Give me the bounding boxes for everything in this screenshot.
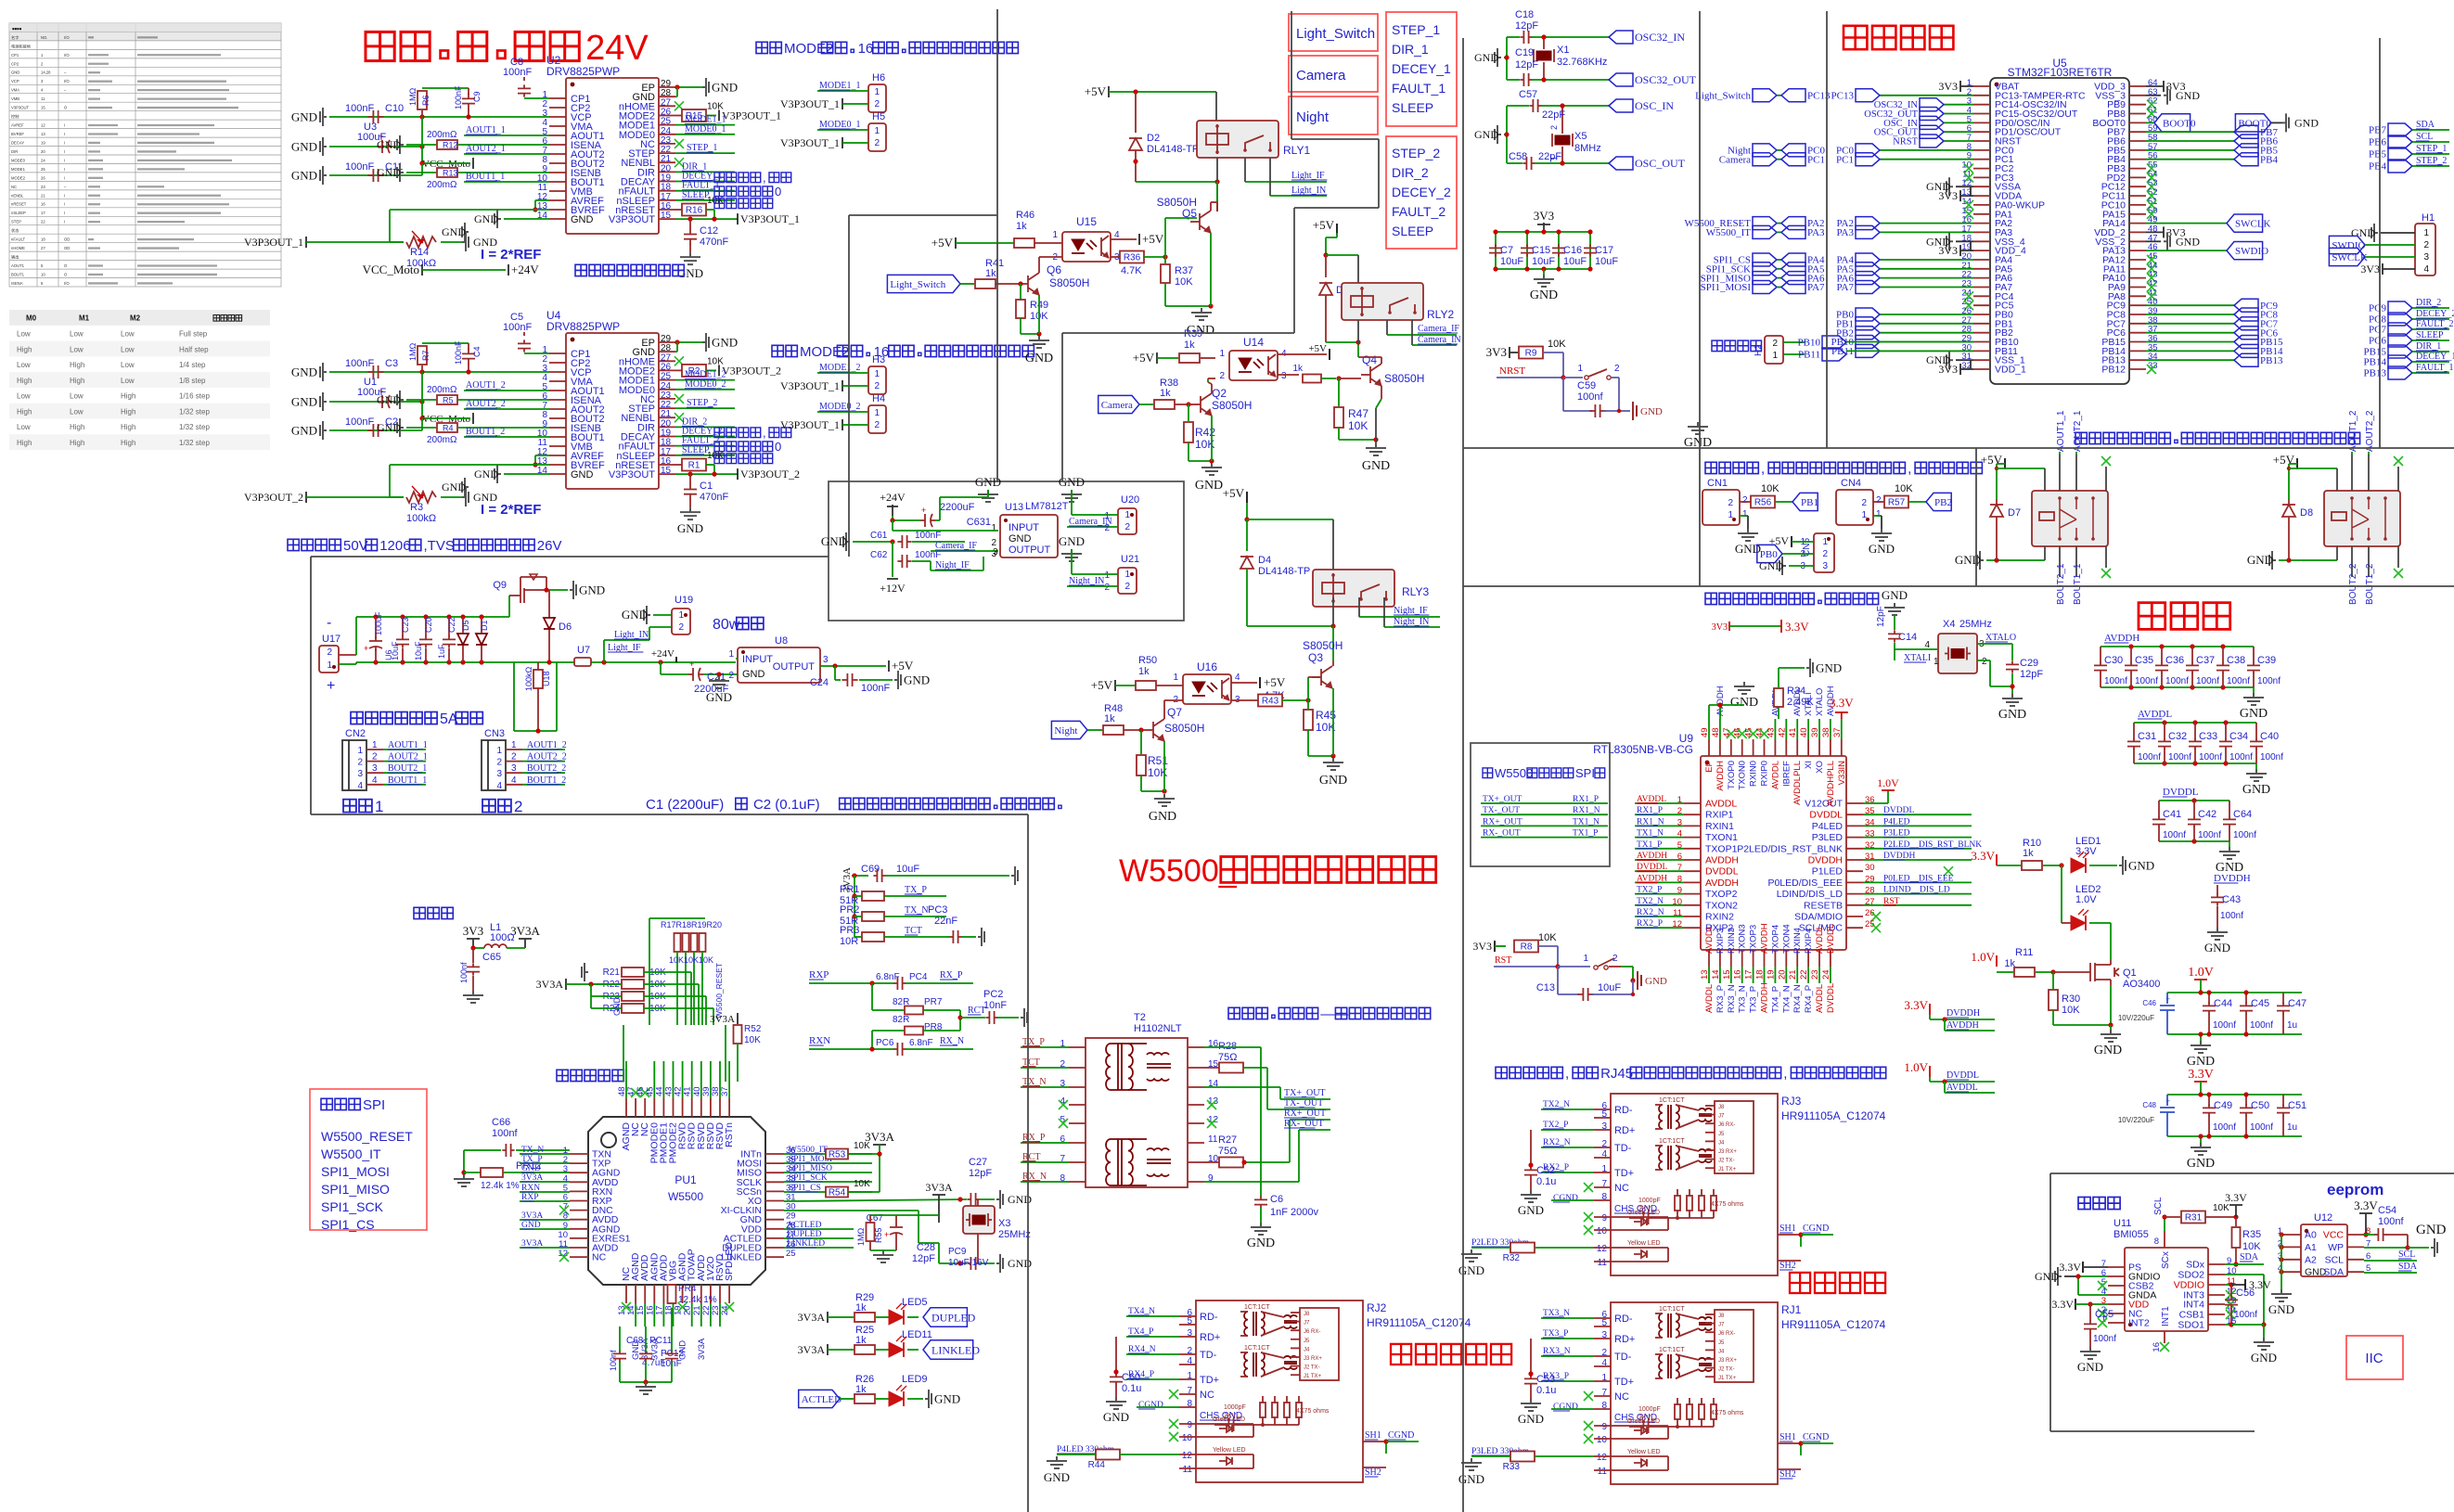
svg-text:GND: GND <box>2094 1044 2122 1057</box>
svg-text:Camera_IF: Camera_IF <box>1418 324 1459 334</box>
svg-text:3V3A: 3V3A <box>710 1014 735 1025</box>
svg-text:100nF: 100nF <box>915 531 941 541</box>
svg-text:R35: R35 <box>2242 1229 2261 1240</box>
svg-text:GND: GND <box>1759 559 1783 572</box>
capacitor C62 100nF <box>892 542 893 561</box>
svg-text:控制: 控制 <box>11 113 19 120</box>
svg-text:R11: R11 <box>2015 947 2033 958</box>
svg-text:0.1u: 0.1u <box>1536 1176 1556 1187</box>
connector RJ1 HR911105A <box>1611 1302 1778 1484</box>
svg-text:OD: OD <box>64 237 70 242</box>
svg-text:9: 9 <box>1601 1422 1607 1432</box>
svg-text:+5V: +5V <box>1313 218 1335 232</box>
svg-text:2200uF: 2200uF <box>940 502 975 513</box>
svg-text:R56: R56 <box>1754 498 1772 508</box>
svg-text:GND: GND <box>377 138 401 151</box>
U5 OSC port flags <box>1944 104 1973 106</box>
svg-text:C51: C51 <box>2288 1100 2306 1111</box>
power +5V <box>1156 352 1158 364</box>
svg-text:AVDDL: AVDDL <box>1704 984 1715 1013</box>
resistor PR4 <box>668 1285 676 1303</box>
capacitor C9/C4 100nF <box>468 343 469 350</box>
connector RJ2 HR911105A <box>1196 1301 1363 1482</box>
ground <box>1191 308 1212 320</box>
svg-text:BOUT1_2: BOUT1_2 <box>527 775 566 786</box>
svg-text:GND: GND <box>1869 542 1895 556</box>
svg-text:W5500_RESET: W5500_RESET <box>714 963 724 1019</box>
svg-text:XTALO: XTALO <box>1985 633 2016 643</box>
svg-text:12: 12 <box>1208 1115 1219 1125</box>
svg-text:DVDDH: DVDDH <box>2214 873 2251 884</box>
svg-text:1: 1 <box>375 798 383 815</box>
svg-text:2: 2 <box>874 381 880 391</box>
annotation transformer note <box>1228 1007 1240 1019</box>
svg-text:S8050H: S8050H <box>1049 276 1089 289</box>
svg-text:Half step: Half step <box>179 345 209 353</box>
svg-text:C35: C35 <box>2135 655 2153 666</box>
svg-text:Camera: Camera <box>1101 400 1133 411</box>
svg-text:GND: GND <box>291 110 317 124</box>
svg-text:OSC32_IN: OSC32_IN <box>1635 31 1685 44</box>
svg-text:STEP_1: STEP_1 <box>1392 22 1440 37</box>
wire Q2 collector to U14 pin2 <box>1211 384 1213 393</box>
U9 right pins <box>1846 802 1863 804</box>
svg-text:100nf: 100nf <box>2198 830 2221 840</box>
svg-text:PC9: PC9 <box>2369 303 2386 314</box>
svg-text:AOUT2_1: AOUT2_1 <box>2073 410 2083 452</box>
svg-text:100nf: 100nf <box>2104 676 2127 686</box>
svg-text:GND: GND <box>2242 783 2270 797</box>
brake relay RLY2 <box>2324 491 2400 546</box>
annotation decay mode note 1 <box>714 173 725 183</box>
svg-text:RD+: RD+ <box>1614 1334 1635 1345</box>
svg-text:X4: X4 <box>1943 619 1955 630</box>
svg-text:■■■■: ■■■■ <box>12 26 22 31</box>
svg-text:1/4 step: 1/4 step <box>179 361 206 369</box>
svg-text:100nF: 100nF <box>503 322 532 333</box>
svg-text:2: 2 <box>728 671 734 681</box>
svg-text:GND: GND <box>291 424 317 438</box>
svg-text:100nf: 100nf <box>459 962 469 983</box>
svg-text:+5V: +5V <box>931 236 954 250</box>
svg-text:GND: GND <box>2128 859 2154 873</box>
svg-text:PB4: PB4 <box>2260 154 2278 165</box>
svg-text:100nf: 100nf <box>2227 676 2250 686</box>
svg-text:1CT:1CT: 1CT:1CT <box>1659 1138 1685 1145</box>
svg-text:I: I <box>64 175 65 180</box>
resistor R9 boxed <box>1510 352 1518 353</box>
svg-text:C37: C37 <box>2196 655 2215 666</box>
svg-text:SDA: SDA <box>2240 1252 2259 1262</box>
svg-text:STEP_2: STEP_2 <box>687 398 717 408</box>
svg-text:14,28: 14,28 <box>41 70 51 75</box>
svg-text:INT2: INT2 <box>2128 1318 2150 1329</box>
svg-text:AVDDH: AVDDH <box>1705 878 1739 889</box>
svg-text:AVDDLPLL: AVDDLPLL <box>1792 761 1803 805</box>
annotation connector 5A <box>351 712 363 724</box>
svg-text:GND: GND <box>2176 89 2200 102</box>
svg-text:nHOME: nHOME <box>11 246 25 250</box>
svg-text:PC1: PC1 <box>1836 154 1854 165</box>
net Night_IN <box>1067 585 1118 587</box>
svg-text:C42: C42 <box>2198 809 2216 820</box>
svg-text:3: 3 <box>1601 1330 1607 1340</box>
svg-text:100nf: 100nf <box>2257 676 2281 686</box>
resistors PR1 PR2 PR3 <box>854 876 855 937</box>
svg-text:15: 15 <box>41 106 45 110</box>
header H4 <box>868 405 886 433</box>
svg-text:TX_P: TX_P <box>905 885 927 895</box>
svg-text:,: , <box>763 426 766 440</box>
svg-text:AVDDL: AVDDL <box>1704 925 1715 954</box>
svg-text:T2: T2 <box>1134 1012 1146 1023</box>
svg-text:+5V: +5V <box>892 659 914 673</box>
svg-text:1.0V: 1.0V <box>1904 1060 1928 1074</box>
svg-text:R43: R43 <box>1262 697 1279 707</box>
relay RLY1 <box>1197 121 1278 158</box>
wire Q2 emitter <box>1211 416 1213 461</box>
svg-text:C48: C48 <box>2142 1101 2156 1109</box>
signal box Light_Switch <box>1289 14 1378 51</box>
svg-text:C58: C58 <box>1509 151 1527 162</box>
svg-text:TXON3: TXON3 <box>1738 924 1748 954</box>
svg-text:NO.: NO. <box>41 35 47 40</box>
svg-text:82R: 82R <box>893 1015 909 1025</box>
svg-text:3V3: 3V3 <box>1472 940 1492 953</box>
svg-text:V3P3OUT: V3P3OUT <box>11 106 30 110</box>
svg-text:10K: 10K <box>707 451 724 461</box>
svg-text:NC: NC <box>11 185 17 189</box>
U4 EP/GND to GND wire <box>675 341 702 343</box>
svg-text:10K: 10K <box>2242 1241 2261 1252</box>
svg-text:D1: D1 <box>480 620 489 631</box>
svg-text:Camera_IF: Camera_IF <box>935 541 977 551</box>
svg-text:I = 2*REF: I = 2*REF <box>481 247 541 263</box>
svg-text:16: 16 <box>41 202 45 207</box>
svg-text:DIR_2: DIR_2 <box>2416 298 2441 308</box>
svg-text:AVDDL: AVDDL <box>1946 1083 1978 1093</box>
svg-text:R44: R44 <box>1088 1460 1106 1470</box>
svg-text:GND: GND <box>1730 696 1758 710</box>
svg-text:BOUT1: BOUT1 <box>11 273 25 277</box>
svg-text:输出: 输出 <box>11 254 19 261</box>
svg-text:10nF: 10nF <box>983 1000 1007 1011</box>
svg-text:SPI1_SCK: SPI1_SCK <box>321 1199 384 1214</box>
svg-text:Low: Low <box>17 361 31 369</box>
connector U20 <box>1118 508 1137 534</box>
U11 right pins <box>2208 1263 2225 1265</box>
svg-text:3: 3 <box>823 655 829 665</box>
svg-text:Yellow LED: Yellow LED <box>1627 1449 1661 1455</box>
svg-text:RXIP1: RXIP1 <box>1705 810 1734 821</box>
svg-text:RX4_P: RX4_P <box>1804 985 1814 1013</box>
resistor R55 1M <box>867 1223 875 1241</box>
svg-text:C61: C61 <box>870 531 888 541</box>
diode D4 DL4148-TP <box>1246 519 1248 551</box>
resistor R6/R7 1M <box>422 342 469 344</box>
svg-text:OSC_IN: OSC_IN <box>1635 99 1674 112</box>
resistor R37 10K <box>1164 257 1166 263</box>
svg-text:AO3400: AO3400 <box>2123 979 2160 990</box>
net Camera_IF <box>931 550 998 552</box>
svg-text:4: 4 <box>372 775 378 786</box>
svg-text:Low: Low <box>121 361 135 369</box>
wire U8 out to +5V <box>820 665 886 667</box>
resistor R47 10K <box>1338 378 1340 406</box>
svg-text:V3P3OUT_2: V3P3OUT_2 <box>740 468 800 481</box>
resistor R6/R7 1M <box>422 87 469 89</box>
svg-text:100nf: 100nf <box>2213 1020 2236 1031</box>
svg-text:R4: R4 <box>443 424 454 433</box>
svg-text:SCL: SCL <box>2153 1197 2164 1215</box>
svg-text:6.8nF: 6.8nF <box>909 1038 933 1048</box>
svg-text:100nf: 100nf <box>609 1350 618 1371</box>
ground flag low <box>462 478 469 496</box>
svg-text:2: 2 <box>1728 498 1733 508</box>
diode D3 DL4148-TP <box>1325 255 1327 277</box>
svg-text:V3P3OUT_1: V3P3OUT_1 <box>740 212 800 225</box>
svg-text:D4: D4 <box>1258 555 1271 566</box>
capacitor C29 12pF <box>2011 644 2013 660</box>
resistor R12/R5 200m <box>397 135 404 154</box>
svg-text:S8050H: S8050H <box>1384 372 1424 385</box>
net Camera_IF wire <box>1386 320 1388 335</box>
svg-text:U16: U16 <box>1197 660 1217 673</box>
svg-text:GND: GND <box>934 1392 960 1406</box>
right side wires W5500 <box>784 1153 872 1155</box>
capacitor C11/C2 100nF <box>320 166 327 185</box>
svg-text:100nf: 100nf <box>2233 830 2256 840</box>
diode D8 <box>2289 463 2297 465</box>
svg-text:RTL8305NB-VB-CG: RTL8305NB-VB-CG <box>1593 743 1693 756</box>
svg-text:C1: C1 <box>700 481 713 492</box>
ground <box>1061 549 1082 561</box>
svg-text:AOUT2_2: AOUT2_2 <box>2365 410 2375 452</box>
RJ1 termination resistors <box>1675 1404 1680 1419</box>
svg-text:GND: GND <box>712 336 738 350</box>
U4 V3P3OUT wire <box>675 473 738 475</box>
svg-text:24: 24 <box>41 158 45 162</box>
svg-text:SDO1: SDO1 <box>2178 1320 2204 1331</box>
svg-text:GND: GND <box>904 673 930 687</box>
svg-text:DVDDL: DVDDL <box>2163 787 2199 798</box>
svg-text:GND: GND <box>2240 707 2268 721</box>
svg-text:GND: GND <box>1816 661 1842 675</box>
electrolytic C21 2200uF <box>660 662 662 674</box>
svg-text:U8: U8 <box>775 635 788 647</box>
U9 left pins <box>1684 802 1701 804</box>
svg-text:DECEY_1: DECEY_1 <box>1392 61 1451 76</box>
svg-text:12: 12 <box>1597 1453 1608 1463</box>
net Camera_IN wire <box>1411 320 1413 345</box>
svg-text:SPDLED: SPDLED <box>724 1242 735 1281</box>
resistor R1 <box>675 464 685 466</box>
resistor R11 1k <box>1997 971 2013 973</box>
svg-text:1: 1 <box>1219 349 1225 359</box>
svg-text:DVDDL: DVDDL <box>1809 810 1843 821</box>
svg-text:NC: NC <box>592 1252 607 1263</box>
svg-text:PC1: PC1 <box>1807 154 1825 165</box>
svg-text:10uF: 10uF <box>414 641 423 660</box>
svg-text:1: 1 <box>327 660 332 671</box>
annotation for other projects <box>575 264 586 275</box>
svg-text:DVDDH: DVDDH <box>1946 1008 1980 1019</box>
svg-text:I/O: I/O <box>64 35 70 40</box>
svg-text:2.49K: 2.49K <box>1787 697 1814 708</box>
svg-text:12pF: 12pF <box>1515 59 1538 70</box>
potentiometer R14/R3 100k <box>305 492 307 503</box>
T2 left pins <box>1069 1046 1086 1048</box>
svg-text:VCP: VCP <box>11 79 19 83</box>
svg-text:AVDDH: AVDDH <box>1760 923 1770 954</box>
svg-text:I/O: I/O <box>64 79 70 83</box>
RJ3 termination resistors <box>1675 1196 1680 1211</box>
svg-text:V3P3OUT_1: V3P3OUT_1 <box>780 136 840 149</box>
svg-text:GND: GND <box>291 169 317 183</box>
svg-text:GND: GND <box>291 395 317 409</box>
svg-text:10K: 10K <box>854 1179 870 1189</box>
left net stubs W5500 <box>520 1153 570 1155</box>
svg-text:NC: NC <box>1614 1183 1629 1194</box>
svg-text:TX4_P: TX4_P <box>1770 986 1780 1013</box>
svg-text:100nf: 100nf <box>2378 1216 2404 1227</box>
title switch <box>2139 603 2165 630</box>
svg-text:RJ1: RJ1 <box>1781 1303 1802 1316</box>
svg-text:C65: C65 <box>482 952 501 963</box>
net Light_IN wire <box>649 626 672 628</box>
svg-text:D7: D7 <box>2008 507 2021 519</box>
svg-text:C31: C31 <box>2138 731 2156 742</box>
svg-text:,: , <box>1761 461 1765 477</box>
wires to OUT labels <box>1266 1068 1268 1109</box>
svg-text:C13: C13 <box>1536 982 1555 993</box>
ground CN1 <box>1740 515 1748 517</box>
svg-text:J3 RX+: J3 RX+ <box>1718 1149 1737 1155</box>
svg-text:R6: R6 <box>421 95 430 106</box>
svg-text:2: 2 <box>1614 364 1620 374</box>
svg-text:12pF: 12pF <box>912 1253 935 1264</box>
svg-text:470nF: 470nF <box>700 237 728 248</box>
capacitor C22 1uF <box>448 617 450 636</box>
title connect night vision <box>1391 1344 1411 1365</box>
svg-text:1CT:1CT: 1CT:1CT <box>1659 1097 1685 1104</box>
svg-text:R31: R31 <box>2185 1213 2203 1224</box>
svg-text:MODE2: MODE2 <box>784 41 833 57</box>
pmos Q9 <box>508 596 510 617</box>
svg-text:100nf: 100nf <box>2260 752 2283 762</box>
svg-text:AVDDH: AVDDH <box>1715 761 1726 791</box>
U2 right pins 15-29 <box>659 86 675 88</box>
svg-text:J6 RX-: J6 RX- <box>1718 1122 1735 1128</box>
svg-text:I: I <box>64 149 65 154</box>
svg-text:J1 TX+: J1 TX+ <box>1718 1376 1737 1381</box>
svg-text:5: 5 <box>1601 1109 1607 1120</box>
svg-text:High: High <box>70 361 84 369</box>
ground <box>1543 269 1545 275</box>
svg-text:R12: R12 <box>443 141 458 150</box>
svg-text:J8: J8 <box>1718 1105 1725 1110</box>
svg-text:TD-: TD- <box>1614 1143 1632 1154</box>
svg-text:1: 1 <box>1601 1373 1607 1383</box>
svg-text:High: High <box>70 377 84 385</box>
svg-text:GND: GND <box>474 212 498 225</box>
svg-text:4: 4 <box>1187 1356 1192 1366</box>
wire WP to GND <box>2364 1247 2408 1249</box>
annotation camera RJ45 note <box>1496 1067 1507 1078</box>
power +5V pin4 <box>1278 353 1327 355</box>
svg-text:1uF: 1uF <box>437 644 446 659</box>
resistor R2 <box>675 369 685 371</box>
svg-text:GND: GND <box>677 521 703 535</box>
svg-text:1/32 step: 1/32 step <box>179 439 210 447</box>
svg-text:GND: GND <box>2035 1270 2059 1283</box>
svg-text:10: 10 <box>1182 1433 1193 1443</box>
svg-text:10uF: 10uF <box>1500 256 1523 267</box>
svg-text:3V3: 3V3 <box>463 924 483 938</box>
connector U19 <box>672 609 690 634</box>
svg-text:PB2: PB2 <box>1934 497 1952 508</box>
svg-text:1CT:1CT: 1CT:1CT <box>1244 1304 1270 1311</box>
svg-text:M2: M2 <box>130 314 141 323</box>
svg-text:470nF: 470nF <box>700 492 728 503</box>
svg-text:10K: 10K <box>1895 483 1913 494</box>
svg-text:+: + <box>364 644 368 653</box>
svg-text:Low: Low <box>70 407 84 416</box>
svg-text:10V/220uF: 10V/220uF <box>2118 1116 2154 1124</box>
svg-text:4: 4 <box>2423 264 2429 275</box>
svg-text:LDIND/DIS_LD: LDIND/DIS_LD <box>1777 889 1844 900</box>
svg-text:RXP: RXP <box>809 969 829 980</box>
svg-text:C47: C47 <box>2288 998 2306 1009</box>
svg-text:BOUT2_1: BOUT2_1 <box>388 763 427 774</box>
svg-text:12pF: 12pF <box>1876 606 1886 627</box>
svg-text:RJ3: RJ3 <box>1781 1095 1802 1108</box>
resistor R13/R4 200m <box>397 418 404 437</box>
svg-text:100nf: 100nf <box>2199 752 2222 762</box>
svg-text:RXIN3: RXIN3 <box>1727 928 1737 954</box>
svg-text:A2: A2 <box>2305 1254 2317 1265</box>
fuse U7 <box>574 658 591 666</box>
svg-text:P0LED/DIS_EEE: P0LED/DIS_EEE <box>1767 878 1843 889</box>
svg-text:MODE0: MODE0 <box>11 158 26 162</box>
svg-text:PA7: PA7 <box>1836 282 1854 293</box>
svg-text:2: 2 <box>2423 240 2429 250</box>
svg-text:2: 2 <box>496 758 502 768</box>
svg-text:1: 1 <box>1583 954 1588 964</box>
svg-text:C41: C41 <box>2163 809 2181 820</box>
resistor R43 boxed <box>1231 699 1258 701</box>
PU1 right pins <box>765 1153 784 1155</box>
svg-text:1: 1 <box>357 746 363 756</box>
svg-text:LM7812T: LM7812T <box>1025 501 1069 512</box>
svg-text:AVDDL: AVDDL <box>2138 709 2172 720</box>
svg-text:PB4: PB4 <box>2369 161 2386 173</box>
svg-text:1/16 step: 1/16 step <box>179 392 210 401</box>
svg-text:Q1: Q1 <box>2123 967 2137 979</box>
svg-text:D2: D2 <box>1147 133 1160 144</box>
annotation capacitor voltage note <box>288 539 299 550</box>
svg-text:High: High <box>121 423 135 431</box>
svg-text:100nf: 100nf <box>2250 1122 2273 1133</box>
wire Q9 drain to GND <box>546 589 568 591</box>
svg-text:AVDDL: AVDDL <box>1815 984 1825 1013</box>
wire SDx <box>2225 1263 2264 1265</box>
diode D7 <box>1997 463 2005 465</box>
svg-text:25: 25 <box>41 167 45 172</box>
svg-text:23: 23 <box>41 185 45 189</box>
svg-text:2: 2 <box>372 752 378 762</box>
svg-text:A0: A0 <box>2305 1230 2317 1241</box>
